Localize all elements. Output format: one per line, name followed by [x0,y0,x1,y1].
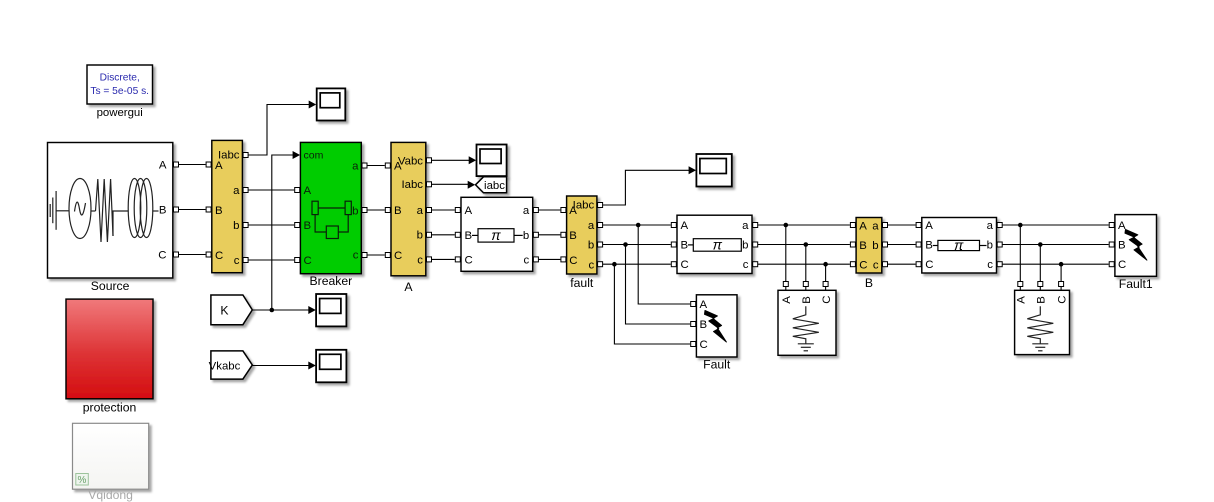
block Source (three-phase source) [48,143,173,294]
block Pi Section Line 3 [922,218,997,274]
wire branch c down to Fault.C [614,264,695,346]
svg-text:c: c [353,250,359,262]
wire K to Scope3 with junction to Breaker.com [252,306,315,314]
svg-text:A: A [859,221,867,233]
wire Breaker.b to A.B [367,208,390,213]
A block output ports [427,158,432,262]
svg-text:Vqidong: Vqidong [88,488,133,502]
svg-text:a: a [742,220,749,232]
wire Pi3.b to Fault1.B with junction to ground2 [1002,242,1114,247]
svg-text:a: a [233,185,240,197]
block protection (red subsystem) [66,299,153,414]
wire fault.c to Pi2.C with branch junction [603,262,677,267]
svg-text:Fault: Fault [703,358,731,372]
svg-text:%: % [78,475,87,486]
wire branch c down to Ground2.C [1059,264,1064,290]
svg-text:Fault1: Fault1 [1119,277,1153,291]
svg-text:Source: Source [91,279,130,293]
wire Pi3.a to Fault1.A with junction to ground2 [1002,223,1114,228]
svg-text:fault: fault [570,276,594,290]
wire Iabc1.b to Breaker.B [248,223,300,228]
block measurement B [856,218,882,291]
svg-text:Iabc: Iabc [573,200,595,212]
wire Pi1.c to fault.C [538,257,566,262]
svg-text:c: c [417,255,423,267]
block Ground1 (three-phase RL load to ground) [778,290,836,355]
wire Breaker.c to A.C [367,253,390,258]
scope Scope5 (fault Iabc) [696,154,731,187]
svg-text:C: C [304,255,312,267]
fault output ports [598,203,603,267]
svg-text:A: A [700,299,708,311]
block Fault1 (three-phase fault) [1115,215,1157,291]
wire Pi3.c to Fault1.C with junction to ground2 [1002,262,1114,267]
svg-text:B: B [215,205,223,217]
scope Scope3 (K) [316,294,346,326]
wire Breaker.a to A.A [367,163,390,168]
svg-text:π: π [954,237,964,253]
svg-text:C: C [681,259,689,271]
wire branch c down to Ground1.C [823,264,828,290]
wire branch b down to Fault.B [626,245,696,327]
block Pi Section Line 2 [677,215,752,273]
svg-text:B: B [865,276,873,290]
Pi2 output ports [753,223,758,267]
svg-text:C: C [215,250,223,262]
powergui block [87,65,153,119]
svg-text:a: a [352,161,359,173]
svg-text:c: c [588,260,594,272]
svg-text:B: B [569,230,577,242]
wire branch a down to Fault.A [638,225,696,307]
svg-text:A: A [925,220,933,232]
svg-text:b: b [742,240,748,252]
svg-text:protection: protection [83,401,137,415]
svg-text:a: a [523,205,530,217]
svg-text:A: A [681,220,689,232]
svg-text:Ts = 5e-05 s.: Ts = 5e-05 s. [90,86,149,97]
Pi3 output ports [997,223,1002,267]
svg-text:C: C [1056,296,1068,304]
wire Iabc1.c to Breaker.C [248,258,300,263]
svg-text:c: c [873,260,879,272]
svg-text:A: A [215,160,223,172]
wire A.Iabc to goto iabc [432,181,476,189]
svg-text:c: c [987,259,993,271]
svg-text:C: C [821,296,833,304]
wire Source.C to Iabc1.C [179,252,212,257]
wire Pi2.b to B.B with junction to ground1 [758,242,856,247]
block three-phase VI measurement Iabc1 [212,140,243,272]
svg-text:B: B [394,205,402,217]
svg-text:C: C [1118,259,1126,271]
svg-text:b: b [872,240,878,252]
svg-text:B: B [681,240,689,252]
svg-text:c: c [234,255,240,267]
wire fault.Iabc to Scope5 [603,166,697,205]
svg-text:B: B [700,319,708,331]
svg-text:a: a [872,221,879,233]
wire branch a down to Ground1.A [783,225,788,290]
wire Iabc1.Iabc to Scope1 [248,101,316,156]
wire A.c to Pi1.C [432,257,461,262]
svg-text:Discrete,: Discrete, [100,73,140,84]
svg-text:π: π [491,227,501,243]
svg-text:A: A [781,296,793,304]
wire B.c to Pi3.C [888,262,922,267]
svg-text:B: B [159,205,167,217]
block Fault (three-phase fault) [696,295,737,372]
wire Source.A to Iabc1.A [179,162,212,167]
wire Source.B to Iabc1.B [179,207,212,212]
scope Scope2 (Vabc) [477,145,507,177]
Pi1 output ports [533,208,538,262]
svg-text:Breaker: Breaker [310,274,353,288]
wire Pi1.a to fault.A [538,208,566,213]
Breaker output ports [362,163,367,258]
wire Vkabc to Scope4 [252,362,315,370]
svg-text:B: B [859,240,867,252]
wire branch b down to Ground1.B [803,245,808,291]
wire branch a down to Ground2.A [1018,225,1023,290]
wire fault.a to Pi2.A with branch junction [603,223,677,228]
wire Pi2.c to B.C with junction to ground1 [758,262,856,267]
svg-text:A: A [159,160,167,172]
wire Pi2.a to B.A with junction to ground1 [758,223,856,228]
from tag Vkabc [209,351,253,379]
svg-text:K: K [220,304,228,318]
wire Iabc1.a to Breaker.A [248,188,300,193]
svg-text:B: B [801,296,813,304]
svg-text:b: b [987,240,993,252]
wire B.a to Pi3.A [888,223,922,228]
svg-text:B: B [1036,296,1048,304]
svg-text:C: C [700,339,708,351]
svg-text:b: b [417,230,423,242]
wire fault.b to Pi2.B with branch junction [603,242,677,247]
wire K junction up to Breaker.com [272,151,300,310]
svg-text:A: A [304,185,312,197]
wire branch b down to Ground2.B [1038,245,1043,291]
svg-text:π: π [713,236,723,252]
wire B.b to Pi3.B [888,242,922,247]
goto tag iabc [476,177,507,193]
svg-text:b: b [588,240,594,252]
wire A.a to Pi1.A [432,208,461,213]
svg-text:com: com [304,150,324,162]
svg-text:A: A [465,205,473,217]
svg-text:a: a [588,220,595,232]
svg-text:B: B [1118,240,1126,252]
svg-text:B: B [304,220,312,232]
svg-text:a: a [987,220,994,232]
Source output ports A B C [174,162,179,257]
svg-text:c: c [743,259,749,271]
block Vqidong (scope-data subsystem) [73,423,149,502]
scope Scope4 (Vkabc) [316,350,346,383]
svg-text:b: b [352,206,358,218]
svg-text:B: B [925,240,933,252]
svg-text:a: a [417,205,424,217]
svg-text:powergui: powergui [97,107,143,119]
svg-text:C: C [394,250,402,262]
svg-text:b: b [523,230,529,242]
svg-text:A: A [1118,220,1126,232]
svg-text:C: C [158,250,166,262]
svg-text:Iabc: Iabc [401,179,423,191]
block Breaker (three-phase breaker) [300,142,361,288]
svg-text:Vkabc: Vkabc [209,361,241,373]
Iabc1 output ports [243,153,248,263]
svg-text:A: A [1016,296,1028,304]
svg-text:Vabc: Vabc [398,156,423,168]
B output ports [883,223,888,267]
wire A.Vabc to Scope2 [432,156,477,164]
svg-text:C: C [859,260,867,272]
block measurement A [391,142,426,294]
svg-text:C: C [569,255,577,267]
block Ground2 (three-phase RL load to ground) [1015,290,1070,354]
wire A.b to Pi1.B [432,232,461,237]
block measurement fault [567,196,597,290]
svg-text:C: C [465,254,473,266]
wire Pi1.b to fault.B [538,232,566,237]
scope Scope1 (top) [317,88,346,120]
svg-text:c: c [523,254,529,266]
svg-text:C: C [925,259,933,271]
from tag K [211,295,252,325]
svg-text:iabc: iabc [484,180,505,192]
svg-text:b: b [233,220,239,232]
svg-text:A: A [404,280,413,294]
svg-text:B: B [465,230,473,242]
block Pi Section Line 1 [461,197,533,271]
